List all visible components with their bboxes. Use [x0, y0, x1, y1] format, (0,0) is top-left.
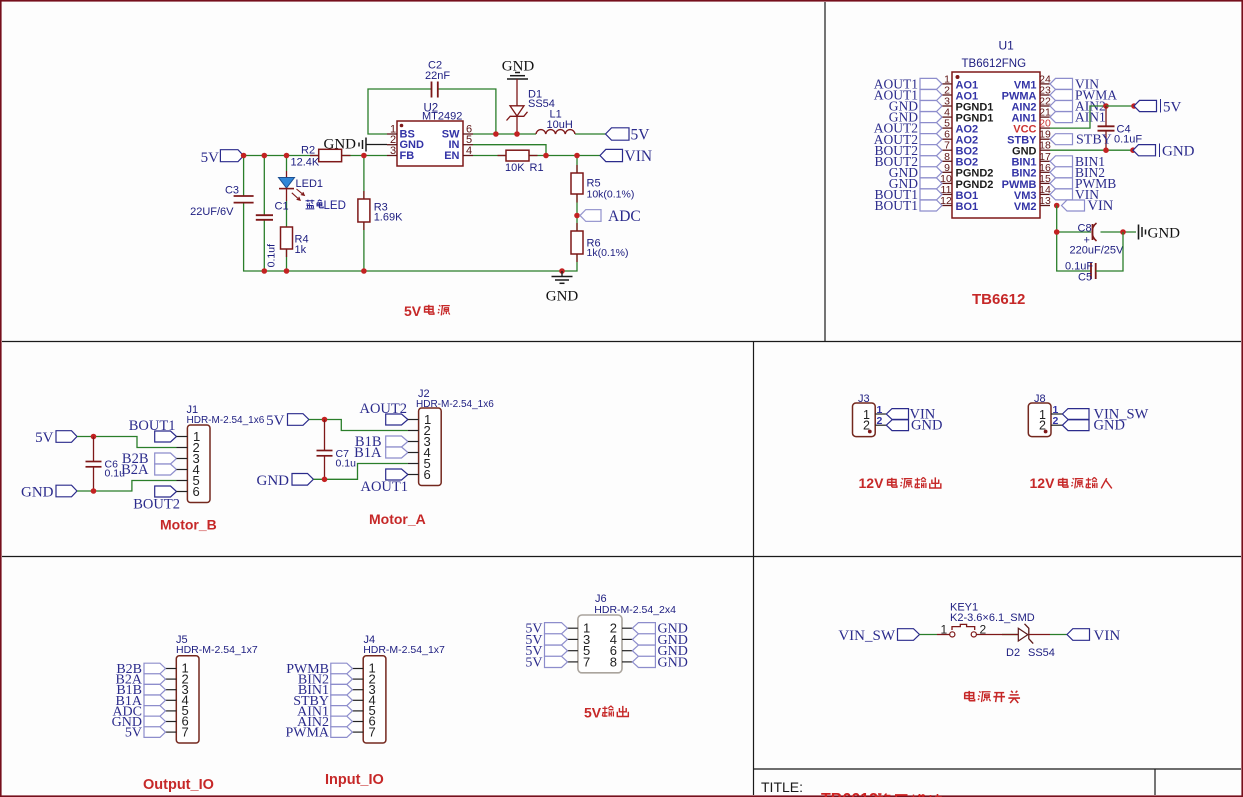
svg-text:LED1: LED1	[296, 178, 324, 190]
ground GND top	[502, 59, 535, 106]
capacitor C4	[1098, 106, 1143, 150]
wire L1 to 5V port	[575, 133, 606, 135]
label blue LED (red)	[306, 200, 346, 212]
svg-text:0.1uF: 0.1uF	[1114, 134, 1142, 146]
port 5V right	[606, 127, 651, 144]
svg-text:GND: GND	[911, 418, 942, 434]
svg-text:GND: GND	[257, 473, 290, 489]
section title 5V power (red)	[404, 303, 450, 319]
port B2B	[122, 451, 177, 467]
svg-text:VIN: VIN	[1094, 628, 1121, 644]
connector J1	[177, 404, 265, 503]
junction node C1 top	[262, 153, 268, 159]
junction node	[322, 477, 328, 483]
wire	[363, 222, 365, 271]
wire D1 to SW	[516, 117, 518, 135]
svg-text:10K: 10K	[505, 162, 525, 174]
junction node C8/C5 right	[1120, 229, 1126, 235]
section divider vertical x=753	[753, 342, 755, 796]
port names right rows1-4	[1075, 77, 1117, 125]
resistor R6	[571, 231, 629, 259]
svg-text:BO1: BO1	[956, 201, 979, 213]
pin numbers right U1	[1039, 73, 1051, 207]
port B2A	[121, 462, 176, 478]
svg-text:5V: 5V	[631, 127, 651, 144]
svg-text:TB6612: TB6612	[972, 291, 1025, 308]
ground right (rotated)	[1139, 225, 1181, 242]
port VIN_SW (J8 pin1)	[1062, 406, 1148, 422]
port GND (J8 pin2)	[1062, 418, 1125, 434]
svg-text:BOUT1: BOUT1	[875, 198, 919, 213]
svg-text:1.69K: 1.69K	[374, 212, 403, 224]
wire C1 vertical	[263, 156, 265, 215]
svg-text:5V: 5V	[584, 705, 602, 721]
capacitor C5 0.1uF	[1065, 261, 1096, 284]
svg-text:ADC: ADC	[608, 208, 641, 225]
svg-text:PWMA: PWMA	[285, 726, 329, 741]
chip U1 TB6612FNG	[952, 39, 1040, 219]
svg-text:22nF: 22nF	[425, 70, 450, 82]
svg-text:7: 7	[583, 654, 590, 669]
capacitor C7	[317, 420, 357, 480]
port BOUT1	[129, 418, 177, 442]
junction node	[322, 417, 328, 423]
svg-text:1k: 1k	[295, 244, 307, 256]
svg-text:C5: C5	[1078, 272, 1092, 284]
svg-text:EN: EN	[444, 150, 459, 162]
port GND (Motor_B)	[21, 485, 77, 501]
wire to 5V port	[1106, 105, 1134, 107]
svg-text:5V: 5V	[266, 413, 285, 429]
connector J5	[166, 634, 258, 743]
port ADC	[580, 208, 641, 225]
port flag STBY	[1050, 133, 1112, 148]
section title 5V output (red)	[584, 705, 628, 721]
port flags J4	[331, 663, 353, 737]
port 5V left	[201, 150, 244, 166]
svg-text:GND: GND	[1148, 226, 1181, 242]
wire	[286, 249, 288, 271]
svg-text:10uH: 10uH	[547, 119, 573, 131]
svg-text:GND: GND	[1094, 418, 1125, 434]
diode D1 SS54	[507, 89, 555, 121]
svg-text:12.4K: 12.4K	[291, 157, 320, 169]
svg-text:5V: 5V	[404, 303, 422, 319]
section title 12V input (red)	[1030, 475, 1112, 491]
svg-text:C1: C1	[275, 201, 289, 213]
svg-text:1: 1	[1053, 404, 1059, 416]
capacitor C6	[86, 437, 126, 492]
port flags right rows1-4 U1	[1050, 78, 1073, 122]
port B1A	[354, 445, 408, 461]
svg-text:5V: 5V	[125, 726, 142, 741]
junction node pin13	[1054, 203, 1060, 209]
svg-text:6: 6	[424, 467, 431, 482]
port names right rows8-11	[1075, 154, 1116, 202]
wire EN to R1	[473, 155, 506, 157]
svg-text:BOUT2: BOUT2	[133, 497, 180, 513]
svg-text:B2A: B2A	[121, 462, 149, 478]
connector J6	[568, 593, 677, 673]
svg-text:7: 7	[182, 724, 189, 739]
wire	[263, 220, 265, 271]
wire C5 right up	[1096, 232, 1123, 271]
capacitor C2	[425, 60, 450, 98]
wire VCC pin20 to 5V	[1050, 106, 1106, 128]
connector J4	[352, 634, 445, 743]
wire	[286, 171, 288, 177]
wire 5V to pin2 J1	[77, 437, 177, 448]
svg-text:GND: GND	[1162, 144, 1195, 160]
svg-text:R1: R1	[530, 162, 544, 174]
svg-text:8: 8	[610, 654, 617, 669]
wire to switch	[920, 634, 938, 636]
svg-text:Motor_A: Motor_A	[369, 511, 426, 527]
svg-text:Output_IO: Output_IO	[143, 777, 214, 793]
wire GND pin18	[1050, 149, 1133, 151]
ground at U2 pin2 (rotated)	[324, 137, 388, 153]
section title 12V output (red)	[859, 475, 941, 491]
svg-text:5V: 5V	[201, 150, 220, 166]
wire SW to L1	[473, 133, 536, 135]
port flags J6 right (GND)	[632, 623, 655, 668]
junction node C4/GND	[1103, 147, 1109, 153]
svg-text:SS54: SS54	[1028, 647, 1055, 659]
svg-text:D2: D2	[1006, 647, 1020, 659]
svg-text:5V: 5V	[35, 430, 54, 446]
port 5V	[1134, 99, 1182, 116]
svg-text:HDR-M-2.54_1x7: HDR-M-2.54_1x7	[363, 644, 445, 656]
junction node	[262, 268, 268, 274]
wire diode to VIN	[1050, 634, 1067, 636]
svg-text:5V: 5V	[1163, 100, 1182, 116]
port 5V (Motor_A)	[266, 413, 309, 429]
port VIN right	[600, 148, 652, 165]
svg-text:GND: GND	[546, 289, 579, 305]
svg-text:U1: U1	[999, 39, 1015, 53]
port GND	[1133, 144, 1195, 160]
svg-text:MT2492: MT2492	[422, 110, 462, 122]
wire	[244, 203, 562, 271]
svg-text:TB6612: TB6612	[821, 791, 878, 797]
switch KEY1	[937, 602, 1035, 638]
wire switch to diode	[1002, 634, 1018, 636]
svg-text:TITLE:: TITLE:	[761, 779, 803, 795]
junction node	[284, 268, 290, 274]
wire	[286, 201, 288, 227]
section divider horizontal y=342	[2, 341, 1241, 343]
wire C2 to SW node	[438, 89, 496, 134]
wire GND to pin5 J2	[313, 464, 408, 480]
capacitor C8 220uF/25V	[1070, 223, 1124, 257]
port AOUT2	[359, 401, 407, 425]
wire 5V rail top	[244, 155, 319, 157]
junction node FB	[361, 153, 367, 159]
svg-text:VIN_SW: VIN_SW	[838, 628, 896, 644]
wire 5V to pin2 J2	[309, 420, 408, 431]
port AOUT1	[360, 469, 408, 495]
port names left U1	[874, 77, 918, 214]
port VIN (J3 pin1)	[886, 406, 936, 422]
junction node ADC	[574, 213, 580, 219]
svg-text:1k(0.1%): 1k(0.1%)	[587, 247, 629, 259]
connector J8	[1028, 393, 1062, 437]
wire R5 to ADC node	[576, 194, 578, 231]
resistor R5	[571, 173, 634, 200]
ground bottom	[546, 271, 579, 305]
title block top line y=769	[754, 768, 1242, 770]
pins right stubs U1	[1040, 84, 1050, 206]
svg-text:GND: GND	[324, 137, 357, 153]
port B1B	[355, 434, 408, 450]
port GND (Motor_A)	[257, 473, 314, 489]
LED LED1	[279, 178, 324, 201]
junction node	[361, 268, 367, 274]
title text TB6612 (clipped at sheet bottom)	[821, 791, 942, 797]
svg-text:7: 7	[369, 724, 376, 739]
svg-text:AOUT1: AOUT1	[360, 479, 408, 495]
port GND (J3 pin2)	[886, 418, 942, 434]
wire IN jog down	[473, 145, 546, 156]
title block vertical divider x=1155	[1154, 769, 1156, 795]
svg-text:K2-3.6×6.1_SMD: K2-3.6×6.1_SMD	[950, 612, 1035, 624]
wire bottom right to R6	[562, 254, 577, 271]
port VIN pin13	[1062, 198, 1114, 214]
inductor L1	[536, 109, 575, 135]
port flags J5	[144, 663, 166, 737]
pin names left U1	[956, 80, 994, 213]
svg-text:HDR-M-2.54_1x7: HDR-M-2.54_1x7	[176, 644, 258, 656]
svg-text:VIN: VIN	[625, 148, 653, 165]
section divider vertical top x=825	[824, 2, 826, 342]
svg-text:GND: GND	[21, 485, 54, 501]
svg-text:LED: LED	[324, 200, 346, 212]
junction node SW/D1	[514, 131, 520, 137]
wire	[286, 189, 288, 201]
junction node C8 left	[1054, 229, 1060, 235]
wire LED/R4 vertical	[286, 156, 288, 172]
junction node gnd	[559, 268, 565, 274]
wire VIN node down to R5	[576, 156, 578, 174]
resistor R3	[358, 199, 403, 224]
svg-text:B1A: B1A	[354, 445, 382, 461]
wire R1 to VIN port	[529, 155, 600, 157]
port flags J6 left (5V)	[545, 623, 568, 668]
port 5V (Motor_B)	[35, 430, 77, 446]
wire C8 right	[1101, 231, 1137, 233]
pin numbers left U1	[940, 73, 952, 207]
svg-text:3: 3	[390, 145, 396, 157]
svg-text:12V: 12V	[859, 475, 885, 491]
diode D2 SS54	[1002, 624, 1055, 659]
wire GND to pin5 J1	[77, 481, 177, 492]
port VIN_SW	[838, 628, 919, 644]
port flags right rows8-11	[1050, 156, 1073, 200]
svg-text:5V: 5V	[525, 655, 542, 670]
svg-text:2: 2	[877, 415, 883, 427]
node at GND port	[1130, 147, 1136, 153]
capacitor C1	[256, 201, 289, 268]
svg-text:FB: FB	[400, 150, 415, 162]
junction node	[91, 434, 97, 440]
connector J2	[408, 388, 494, 486]
svg-text:22UF/6V: 22UF/6V	[190, 206, 234, 218]
svg-text:STBY: STBY	[1076, 133, 1112, 148]
section title power switch (red)	[965, 691, 1020, 703]
svg-text:TB6612FNG: TB6612FNG	[962, 58, 1027, 70]
svg-text:Input_IO: Input_IO	[325, 772, 384, 788]
junction node	[241, 153, 247, 159]
resistor pin stubs (dark red)	[287, 156, 578, 263]
svg-text:VM2: VM2	[1014, 201, 1037, 213]
svg-text:12V: 12V	[1030, 475, 1056, 491]
junction node VIN/R5	[574, 153, 580, 159]
op-amp U2 MT2492	[387, 103, 473, 167]
port names GND	[658, 622, 688, 671]
wire R3 vertical	[363, 156, 365, 200]
svg-text:220uF/25V: 220uF/25V	[1070, 245, 1124, 257]
svg-text:6: 6	[193, 484, 200, 499]
resistor R4	[281, 227, 309, 256]
section divider horizontal y=556	[2, 556, 1241, 558]
svg-text:C3: C3	[225, 185, 239, 197]
svg-text:4: 4	[466, 145, 472, 157]
capacitor C3	[190, 185, 254, 219]
junction node	[91, 488, 97, 494]
port names J4	[285, 662, 329, 741]
wire left vertical through C3	[243, 156, 245, 196]
svg-text:0.1u: 0.1u	[336, 458, 357, 470]
svg-text:R2: R2	[301, 145, 315, 157]
svg-text:GND: GND	[658, 655, 688, 670]
svg-text:2: 2	[1053, 415, 1059, 427]
wire pin13 down to caps	[1057, 206, 1091, 272]
port VIN	[1067, 628, 1120, 644]
svg-text:C8: C8	[1078, 223, 1092, 235]
port names J5	[112, 662, 143, 741]
wire R2 to FB node	[342, 155, 387, 157]
connector J3	[853, 393, 887, 437]
junction node EN/IN	[543, 153, 549, 159]
svg-text:VIN: VIN	[1088, 198, 1114, 214]
svg-text:1: 1	[877, 404, 883, 416]
junction node SW/C2	[493, 131, 499, 137]
svg-text:0.1uf: 0.1uf	[266, 244, 278, 267]
junction node	[284, 153, 290, 159]
pins left stubs U1	[942, 84, 952, 206]
node at 5V port	[1131, 103, 1137, 109]
port BOUT2	[133, 486, 180, 513]
resistor R1	[505, 150, 544, 174]
wire to C8	[1057, 231, 1091, 233]
wire BS to C2	[368, 89, 431, 134]
svg-text:Motor_B: Motor_B	[160, 517, 217, 533]
svg-text:13: 13	[1039, 195, 1051, 207]
resistor R2	[291, 145, 342, 169]
svg-text:1: 1	[941, 623, 948, 637]
junction node 5V/C4	[1103, 103, 1109, 109]
port flags left column U1	[920, 78, 942, 211]
svg-text:10k(0.1%): 10k(0.1%)	[587, 188, 635, 200]
port names 5V	[525, 622, 542, 671]
pin names right U1	[1002, 80, 1037, 213]
